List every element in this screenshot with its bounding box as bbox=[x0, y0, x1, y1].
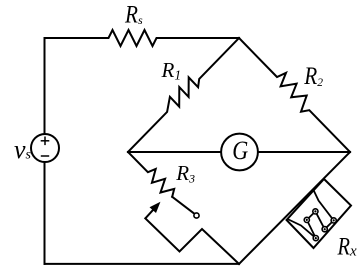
Rx stud chain wires bbox=[307, 211, 334, 238]
Rx stud c4 bbox=[331, 218, 336, 223]
wire: galvanometer branch right bbox=[258, 151, 350, 153]
Rx box outline bbox=[287, 179, 352, 248]
Rx stud c5 bbox=[313, 236, 318, 241]
wire: bottom horizontal bbox=[45, 263, 240, 265]
R3 wiper arrowhead bbox=[150, 203, 159, 212]
Rx stud c2 bbox=[313, 209, 318, 214]
svg-text:G: G bbox=[232, 136, 248, 165]
resistor R2 (top-right bridge arm) bbox=[239, 38, 350, 152]
Rx stud c1 bbox=[304, 217, 309, 222]
galvanometer G circle bbox=[221, 134, 258, 171]
R3 wiper arrow shaft bbox=[145, 209, 153, 218]
resistor R3 (variable, bottom-left bridge arm zigzag) bbox=[128, 152, 174, 197]
vs plus sign bbox=[41, 137, 50, 146]
wire: R3 wiper path to bottom node bbox=[145, 218, 239, 264]
resistor Rs (top wire with zigzag) bbox=[45, 30, 240, 46]
wire: left vertical bottom segment bbox=[44, 162, 46, 264]
voltage source vs circle bbox=[31, 134, 59, 162]
Rx inner lead from left corner to stud c5 bbox=[288, 219, 316, 238]
Rx inner lead from top corner to stud c4 bbox=[314, 190, 334, 220]
vs minus sign bbox=[41, 155, 49, 157]
wire: galvanometer branch left bbox=[128, 151, 221, 153]
wire: left vertical top segment bbox=[44, 38, 46, 134]
Rx stud c3 bbox=[322, 227, 327, 232]
R3 open terminal circle bbox=[194, 213, 199, 218]
resistor R1 (top-left bridge arm) bbox=[128, 38, 239, 152]
wire: R3 open terminal stub bbox=[172, 197, 194, 214]
wire: bottom-right bridge arm through Rx bbox=[239, 152, 350, 264]
